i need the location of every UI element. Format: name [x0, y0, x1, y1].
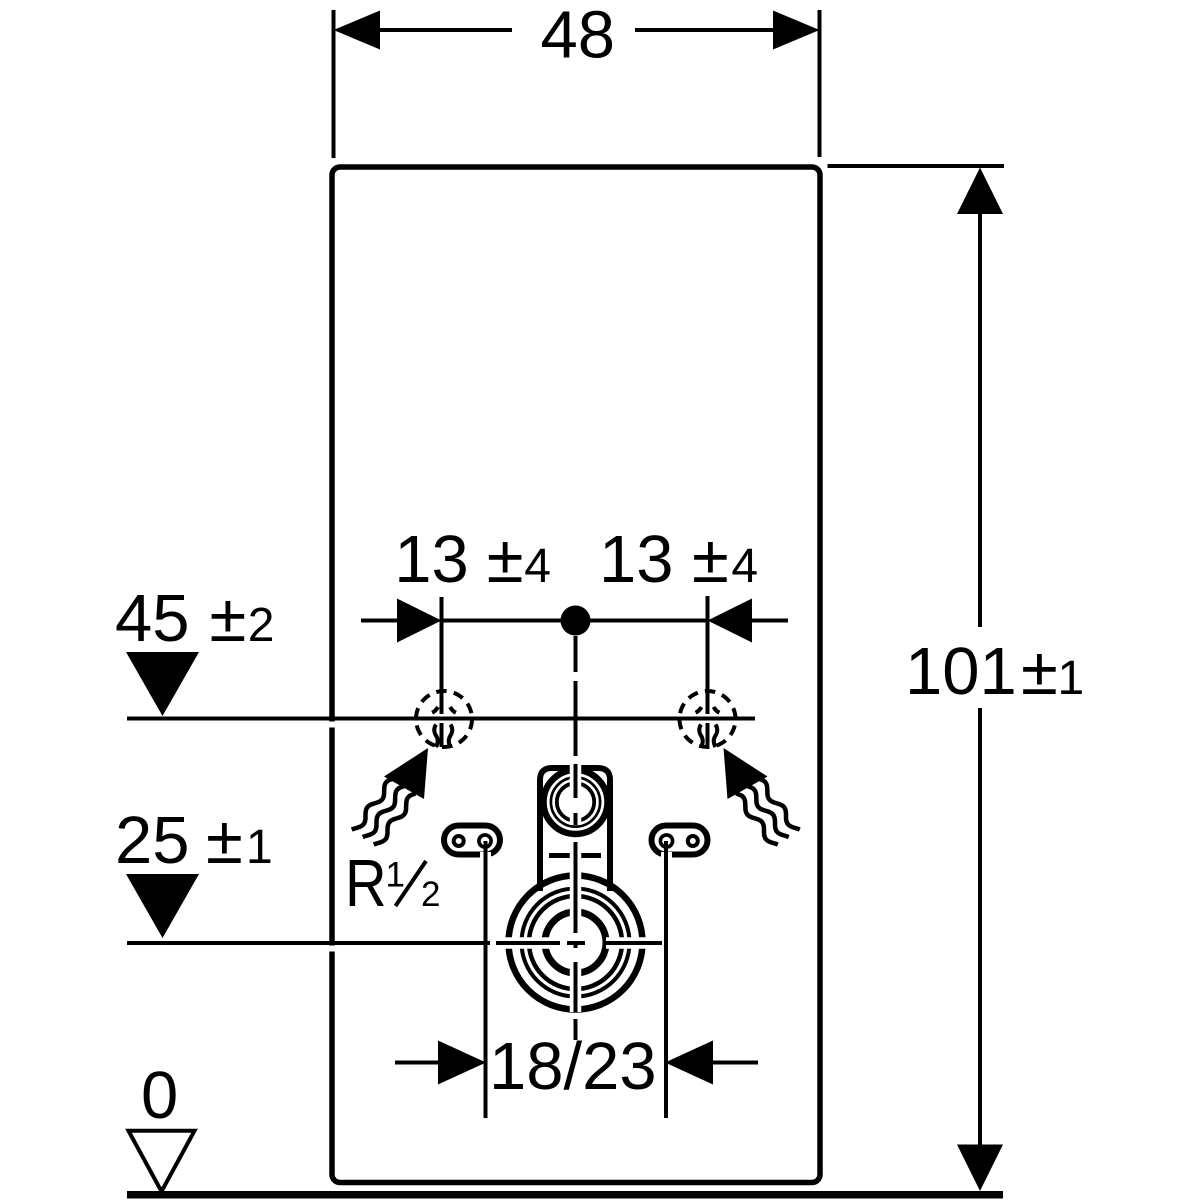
dimension 13/13: dimension line right tail	[752, 619, 788, 623]
halo gap on panel left edge below 25-level line	[325, 946, 339, 952]
height dimension 101: top extension line	[828, 164, 1005, 168]
svg-text:1: 1	[246, 821, 273, 874]
svg-text:±: ±	[210, 581, 247, 656]
dimension 13/13: center reference dot	[561, 606, 591, 636]
height dimension 101: top arrowhead	[957, 168, 1003, 215]
panel outline (sanitary module front)	[332, 167, 820, 1183]
dimension 18/23: dimension line left tail	[395, 1061, 440, 1065]
dimension 13/13: left extension line	[440, 597, 444, 714]
svg-text:0: 0	[141, 1058, 178, 1133]
drain pipe ring 2	[529, 896, 622, 989]
svg-text:45: 45	[115, 581, 190, 656]
svg-text:13: 13	[599, 522, 674, 597]
left lug small hole	[454, 836, 464, 846]
vertical centerline white casing over rings	[570, 764, 582, 1012]
width dimension 48: left arrowhead	[334, 11, 381, 50]
dimension 13/13: right extension line	[706, 596, 710, 714]
vertical centerline lower dashes	[574, 764, 578, 1040]
svg-text:±: ±	[692, 522, 729, 597]
right fastening lug	[652, 826, 708, 855]
halo gap on panel left edge below 45-level line	[325, 722, 339, 728]
right water waves	[736, 779, 800, 845]
svg-text:4: 4	[731, 540, 758, 593]
left lug extension line	[484, 841, 488, 1118]
white casing under left lug line	[480, 852, 491, 866]
drain pipe ring 3	[522, 889, 630, 997]
svg-text:±: ±	[487, 522, 524, 597]
drain pipe ring inner	[545, 912, 606, 973]
svg-text:±: ±	[1021, 634, 1058, 709]
svg-text:2: 2	[421, 875, 440, 914]
flush bend bracket outline	[540, 768, 610, 891]
height dimension 101: dimension line lower part	[978, 708, 982, 1153]
right lug extension line	[664, 841, 668, 1118]
svg-text:2: 2	[248, 599, 275, 652]
svg-text:1: 1	[1058, 652, 1085, 705]
level 25: filled triangle marker	[126, 874, 199, 938]
white casing under right lug line	[661, 852, 672, 866]
level 25: level line with centerline gaps	[127, 941, 490, 945]
right lug anchor hole	[660, 835, 672, 847]
dimension 18/23: right arrowhead	[665, 1041, 713, 1085]
water supply pipe ring middle	[551, 777, 600, 826]
svg-text:18/23: 18/23	[489, 1029, 657, 1104]
height dimension 101: dimension line upper part	[978, 210, 982, 627]
svg-text:R: R	[345, 846, 387, 921]
dimension 18/23: dimension line right tail	[711, 1061, 758, 1065]
width dimension 48: dimension line right part	[635, 28, 773, 32]
left lug anchor hole	[479, 835, 491, 847]
width dimension 48: right extension line	[818, 10, 822, 157]
width dimension 48: right arrowhead	[773, 11, 820, 50]
width dimension 48: left extension line	[332, 10, 336, 158]
drain pipe ring outer	[509, 876, 643, 1010]
level 45: filled triangle marker	[126, 652, 199, 716]
level 45: level line	[127, 717, 755, 721]
right water connection (dashed circle symbol, mirrored)	[680, 691, 800, 845]
dimension 13/13: dimension line left tail	[361, 619, 397, 623]
left water connection (dashed circle symbol)	[416, 691, 472, 747]
dimension 13/13: right arrowhead	[708, 599, 753, 643]
svg-text:25: 25	[115, 803, 190, 878]
left water supply arrow	[384, 748, 428, 799]
height dimension 101: bottom arrowhead	[957, 1145, 1003, 1192]
svg-text:4: 4	[524, 540, 551, 593]
svg-text:1: 1	[386, 856, 405, 895]
svg-text:101: 101	[905, 634, 1017, 709]
level 0: open triangle marker	[129, 1131, 195, 1192]
right water supply arrow	[724, 748, 768, 799]
floor line	[127, 1191, 1003, 1199]
width dimension 48: dimension line left part	[379, 28, 512, 32]
dimension 18/23: left arrowhead	[438, 1041, 486, 1085]
bracket dashed axis right dash	[581, 853, 601, 858]
svg-text:±: ±	[206, 803, 243, 878]
bracket dashed axis left dash	[549, 853, 570, 858]
horizontal centerline white casing over rings	[500, 937, 661, 949]
svg-text:48: 48	[541, 0, 616, 73]
left fastening lug	[444, 826, 500, 855]
dimension 13/13: dimension line center	[442, 619, 708, 623]
dimension 13/13: left arrowhead	[397, 599, 442, 643]
svg-text:13: 13	[394, 522, 469, 597]
water supply pipe ring outer	[544, 770, 608, 834]
right lug small hole	[688, 836, 698, 846]
left water waves	[352, 779, 416, 845]
water supply pipe ring inner	[557, 783, 594, 820]
horizontal centerline dashes over circle	[496, 941, 662, 945]
vertical centerline through module axis (upper dashes)	[574, 636, 578, 756]
